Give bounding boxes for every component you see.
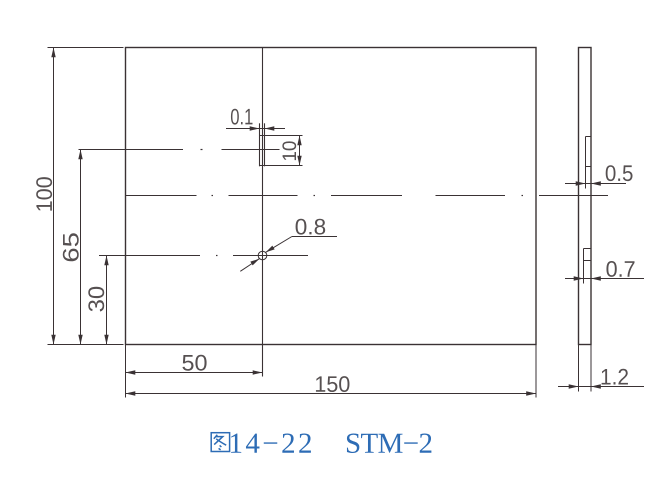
arrow 0.1 left <box>250 126 260 130</box>
side view extensions below <box>578 345 580 392</box>
leader arrow lower (pointing to circle) <box>250 259 259 266</box>
65 dim line <box>80 150 82 345</box>
slot centerline <box>79 149 184 151</box>
text 150 <box>316 376 350 392</box>
caption text 14-22 <box>231 433 311 452</box>
text 0.5 <box>606 165 633 181</box>
caption text STM-2 <box>347 433 431 452</box>
0.1 dimension line <box>226 128 285 130</box>
text 0.7 <box>606 261 634 277</box>
text 30 (rotated) <box>88 287 104 312</box>
1.2 dim line <box>558 386 644 388</box>
arrow 150 left <box>126 391 136 395</box>
slot left edge line <box>259 123 261 166</box>
arrow 65 top <box>78 150 82 160</box>
hole notch in side view <box>583 249 585 261</box>
arrow 0.7 right <box>591 276 601 280</box>
text 0.1 <box>231 109 253 125</box>
extension of slot notch line <box>585 167 587 189</box>
arrow 0.1 right <box>265 126 275 130</box>
slot top extension line for 10 dim <box>260 135 303 137</box>
arrow 0.7 left <box>574 276 584 280</box>
arrow 0.5 left <box>576 181 586 185</box>
leader arrow upper (pointing to circle) <box>266 246 275 253</box>
0.5 dim line <box>565 183 626 185</box>
slot bottom extension line for 10 dim <box>260 165 303 167</box>
text 50 <box>182 355 206 371</box>
0.7 dim line <box>565 278 644 280</box>
hole centerline <box>99 255 200 257</box>
bottom extension line <box>48 344 124 346</box>
text 0.8 <box>296 219 326 235</box>
arrow 100 bottom <box>51 335 55 345</box>
arrow 10 bottom <box>297 156 301 166</box>
arrow 1.2 right <box>591 384 601 388</box>
text 10 (rotated) <box>282 141 296 160</box>
extension of hole notch line <box>583 261 585 284</box>
arrow 30 bottom <box>104 335 108 345</box>
plate outline front view <box>126 48 537 345</box>
arrow 10 top <box>297 136 301 146</box>
hole circle 0.8 <box>258 251 267 260</box>
10 dimension line <box>299 136 301 166</box>
vertical extension/center line at x=262.5 <box>262 48 264 377</box>
main centerline <box>126 195 197 197</box>
arrow 0.5 right <box>591 181 601 185</box>
side view outline <box>579 48 592 345</box>
50 dim line <box>126 372 263 374</box>
slot notch in side view <box>585 137 587 167</box>
arrow 65 bottom <box>78 335 82 345</box>
150 dim line <box>126 393 537 395</box>
arrow 100 top <box>51 48 55 58</box>
left edge extension below <box>125 345 127 398</box>
slot right edge line <box>264 123 266 166</box>
right edge extension below <box>535 345 537 398</box>
arrow 1.2 left <box>569 384 579 388</box>
text 100 (rotated) <box>36 177 52 211</box>
leader line lower segment <box>240 259 259 272</box>
leader line upper segment <box>266 237 292 253</box>
arrow 50 left <box>126 370 136 374</box>
arrow 30 top <box>104 256 108 266</box>
30 dim line <box>106 256 108 345</box>
caption glyph 图 (hand drawn) <box>211 433 229 452</box>
arrow 150 right <box>526 391 536 395</box>
leader horizontal <box>292 236 337 238</box>
top extension line <box>48 47 124 49</box>
100 dim line <box>53 48 55 345</box>
text 65 (rotated) <box>63 233 79 261</box>
arrow 50 right <box>253 370 263 374</box>
text 1.2 <box>602 369 628 385</box>
